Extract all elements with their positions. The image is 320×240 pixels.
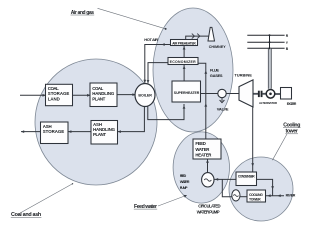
svg-text:HEATER: HEATER <box>195 153 212 158</box>
svg-text:LAND: LAND <box>48 96 60 101</box>
svg-text:WATER PUMP: WATER PUMP <box>197 210 220 215</box>
svg-text:ALTERNATOR: ALTERNATOR <box>259 101 278 105</box>
svg-text:PLANT: PLANT <box>92 96 105 101</box>
svg-text:TOWER: TOWER <box>249 198 261 202</box>
svg-text:PLANT: PLANT <box>93 132 106 137</box>
svg-text:RIVER: RIVER <box>286 194 296 198</box>
svg-text:EXCITER: EXCITER <box>287 102 297 106</box>
svg-text:WATER: WATER <box>195 147 210 152</box>
svg-text:COOLING: COOLING <box>249 193 263 197</box>
svg-text:STORAGE: STORAGE <box>43 129 65 134</box>
svg-text:HOT AIR: HOT AIR <box>144 37 158 42</box>
svg-text:FLUE: FLUE <box>210 67 219 72</box>
svg-text:BOILER: BOILER <box>138 93 152 97</box>
svg-text:CONDENSER: CONDENSER <box>238 174 255 178</box>
svg-text:AIR PREHEATER: AIR PREHEATER <box>172 41 196 45</box>
svg-text:FEED: FEED <box>195 141 206 146</box>
svg-text:GASES: GASES <box>210 73 223 78</box>
svg-text:FEED: FEED <box>180 174 187 178</box>
svg-text:PUMP: PUMP <box>180 186 188 190</box>
svg-text:CIRCULATED: CIRCULATED <box>198 203 220 208</box>
svg-text:CHIMNEY: CHIMNEY <box>209 45 227 49</box>
svg-text:WATER: WATER <box>180 180 190 184</box>
svg-text:VALVE: VALVE <box>217 107 229 112</box>
svg-text:ECONOMIZER: ECONOMIZER <box>170 60 196 64</box>
svg-text:SUPERHEATER: SUPERHEATER <box>174 91 200 95</box>
svg-text:TURBINE: TURBINE <box>234 73 252 78</box>
